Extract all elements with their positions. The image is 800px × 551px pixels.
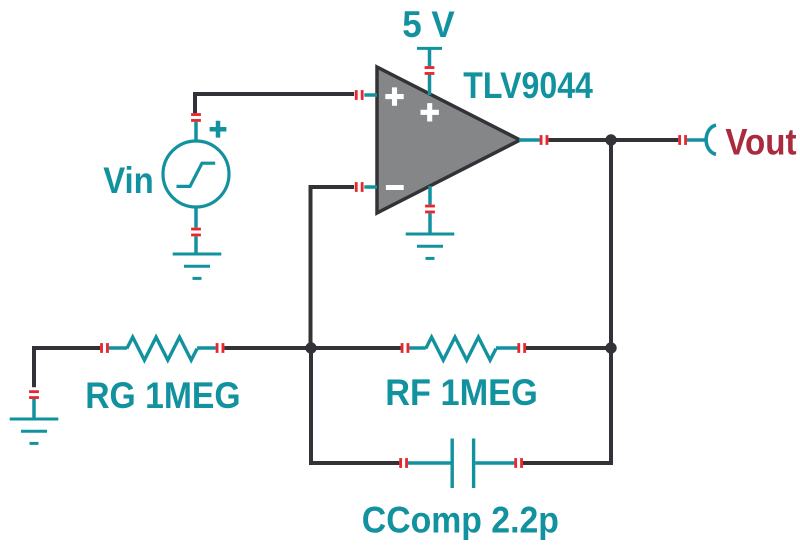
VG1 top lead — [194, 122, 198, 142]
resistor RG right lead — [197, 346, 216, 349]
pin marker Vout port — [678, 135, 687, 145]
pin marker RG left — [100, 343, 109, 353]
capacitor CComp right plate — [472, 439, 475, 489]
op-amp U1 TLV9044 triangle — [377, 67, 520, 213]
capacitor CComp left lead — [408, 461, 451, 464]
VG1 plus polarity mark — [210, 121, 227, 138]
5V supply lead upper — [428, 48, 432, 66]
capacitor CComp right lead — [475, 461, 514, 464]
ground below op-amp — [406, 234, 455, 258]
op-amp -input stub — [364, 185, 377, 189]
pin marker op-amp -input — [355, 182, 364, 192]
wire node A up to op-amp -input — [311, 187, 355, 348]
op-amp ground lead lower — [428, 213, 432, 234]
wire output node down to node B — [609, 140, 613, 348]
VG1 bottom lead lower — [194, 236, 198, 254]
pin marker op-amp output — [540, 135, 549, 145]
wire RF right to node B — [526, 346, 611, 350]
op-amp -input symbol — [386, 185, 404, 190]
wire op-amp output to output node to Vout port — [548, 138, 678, 142]
pin marker CComp right — [514, 458, 523, 468]
resistor RG zigzag — [127, 337, 197, 360]
wire RG right to node A to RF left — [224, 346, 401, 350]
wire node B down and left to CComp right — [523, 348, 611, 463]
5V supply terminal bar — [417, 47, 442, 50]
pin marker op-amp ground — [425, 205, 435, 214]
pin marker RG ground lead — [29, 390, 39, 399]
svg-text:CComp 2.2p: CComp 2.2p — [362, 500, 559, 541]
voltage source VG1 circle — [163, 141, 229, 207]
pin marker CComp left — [399, 458, 408, 468]
pin marker op-amp +input — [355, 90, 364, 100]
op-amp output stub — [519, 138, 540, 142]
svg-text:RG 1MEG: RG 1MEG — [85, 375, 240, 416]
VG1 waveform symbol — [177, 163, 216, 186]
op-amp positive supply symbol — [421, 103, 439, 121]
ground below RG — [10, 419, 59, 443]
resistor RG left lead — [109, 346, 127, 349]
svg-text:RF 1MEG: RF 1MEG — [385, 372, 538, 413]
Vout port lead — [687, 138, 705, 142]
resistor RF left lead — [409, 346, 425, 349]
wire CComp left to node A branch — [311, 348, 399, 463]
junction output node — [605, 134, 616, 145]
wire Vin top to op-amp +input — [195, 94, 354, 113]
5V supply lead lower — [428, 75, 432, 95]
op-amp +input stub — [364, 93, 377, 97]
capacitor CComp left plate — [451, 439, 454, 489]
svg-text:Vin: Vin — [103, 160, 154, 201]
pin marker RG right — [216, 343, 225, 353]
svg-text:TLV9044: TLV9044 — [463, 65, 593, 106]
svg-text:Vout: Vout — [725, 122, 796, 163]
pin marker VG1 bottom — [191, 228, 201, 237]
pin marker VG1 top — [191, 113, 201, 122]
svg-text:5 V: 5 V — [402, 4, 455, 45]
pin marker RF right — [517, 343, 526, 353]
ground below VG1 — [173, 254, 222, 278]
pin marker RF left — [401, 343, 410, 353]
Vout port arc — [706, 125, 716, 154]
pin marker 5V supply — [425, 66, 435, 75]
op-amp ground lead upper — [428, 186, 432, 205]
junction node B — [605, 342, 616, 353]
op-amp +input symbol — [385, 87, 403, 105]
RG ground lead lower — [32, 399, 36, 419]
resistor RF zigzag — [426, 337, 496, 360]
junction node A — [305, 342, 316, 353]
resistor RF right lead — [496, 346, 517, 349]
VG1 bottom lead upper — [194, 207, 198, 228]
wire RG left to ground lead — [34, 348, 100, 387]
